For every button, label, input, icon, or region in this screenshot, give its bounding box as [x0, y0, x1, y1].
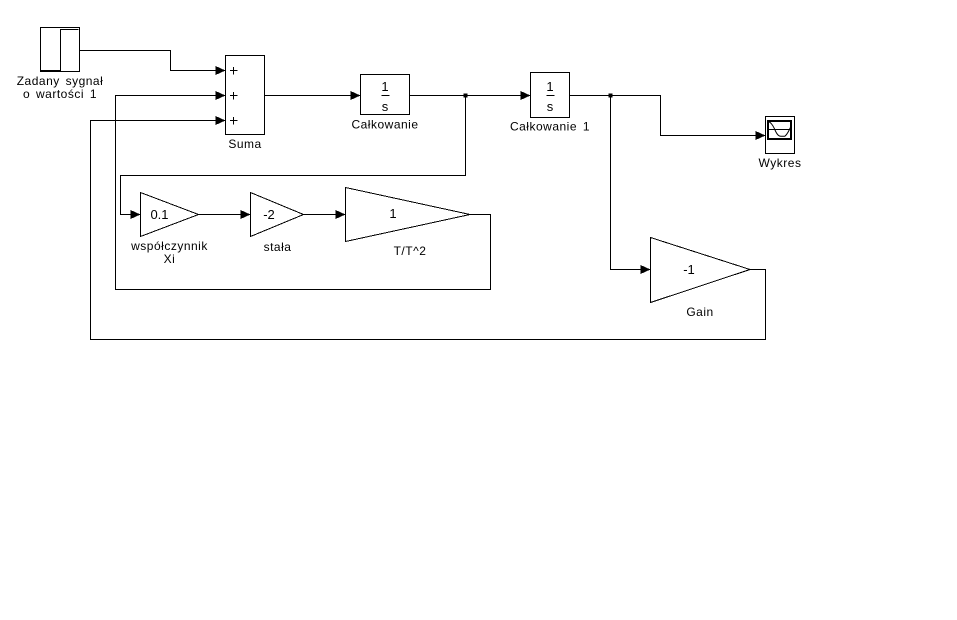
- svg-text:1: 1: [546, 79, 553, 94]
- wire T/T^2 feedback to Suma input2: [116, 91, 491, 290]
- svg-text:Suma: Suma: [228, 137, 261, 151]
- svg-text:T/T^2: T/T^2: [394, 244, 427, 258]
- gain triangle stala (-2): [251, 193, 304, 255]
- svg-text:Zadany sygnał: Zadany sygnał: [17, 74, 104, 88]
- wire Calkowanie1 to Wykres: [570, 96, 766, 141]
- wire Suma to Calkowanie: [265, 91, 361, 100]
- wire junction down to Gain: [611, 96, 651, 275]
- junction node after Calkowanie1: [609, 94, 613, 98]
- junction node after Calkowanie: [464, 94, 468, 98]
- scope block Wykres: [759, 117, 802, 171]
- gain triangle wspolczynnik Xi (0.1): [130, 193, 208, 267]
- wire junction down-left to wspolczynnik Xi: [121, 96, 466, 220]
- svg-text:-1: -1: [683, 262, 695, 277]
- integrator block Calkowanie: [351, 75, 418, 132]
- svg-text:Całkowanie 1: Całkowanie 1: [510, 120, 590, 134]
- svg-text:stała: stała: [264, 240, 292, 254]
- svg-text:1: 1: [389, 206, 396, 221]
- svg-text:o wartości 1: o wartości 1: [23, 87, 97, 101]
- svg-text:s: s: [382, 99, 389, 114]
- svg-text:Całkowanie: Całkowanie: [351, 118, 418, 132]
- sum block Suma: [226, 56, 265, 152]
- svg-text:-2: -2: [263, 207, 275, 222]
- wire step to Suma input1: [80, 51, 226, 76]
- wire wspolczynnik Xi to stala: [199, 210, 251, 219]
- step source block Zadany sygnal o wartosci 1: [17, 28, 104, 102]
- svg-text:Wykres: Wykres: [759, 156, 802, 170]
- svg-text:s: s: [547, 99, 554, 114]
- svg-text:Gain: Gain: [686, 305, 713, 319]
- integrator block Calkowanie 1: [510, 73, 590, 134]
- gain triangle T/T^2 (1): [346, 188, 471, 259]
- svg-text:1: 1: [381, 79, 388, 94]
- wire Calkowanie to Calkowanie1: [410, 91, 531, 100]
- svg-text:0.1: 0.1: [150, 207, 168, 222]
- gain triangle Gain (-1): [651, 238, 751, 320]
- svg-text:współczynnik: współczynnik: [130, 239, 208, 253]
- wire Gain feedback to Suma input3: [91, 116, 766, 340]
- svg-text:Xi: Xi: [164, 252, 176, 266]
- wire stala to T/T^2: [304, 210, 346, 219]
